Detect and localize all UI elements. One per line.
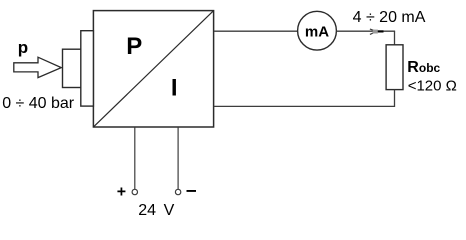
wire: ammeter to top-right corner [336,30,395,32]
pressure port inner flange [63,49,81,87]
svg-text:4 ÷ 20 mA: 4 ÷ 20 mA [353,9,426,26]
wire: - supply lead [177,127,179,189]
svg-text:24V: 24V [138,202,174,219]
resistor Robc [386,45,403,90]
svg-text:0 ÷ 40 bar: 0 ÷ 40 bar [2,95,75,112]
pressure input block arrow [14,57,62,77]
svg-text:P: P [126,33,142,60]
wire: corner down to resistor top [394,31,396,45]
current direction arrow [370,29,384,34]
terminal + [132,189,137,194]
ammeter M1 [298,11,337,50]
P/I converter box U1 [93,11,213,127]
svg-text:p: p [18,38,28,57]
wire: + supply lead [134,127,136,189]
diagonal divider of converter box [94,11,214,127]
pressure port outer flange [81,31,94,106]
svg-text:mA: mA [305,23,329,40]
wire: resistor bottom return to box [214,90,395,107]
wire: box output to ammeter [214,30,298,32]
svg-text:I: I [171,75,178,102]
svg-text:Robc: Robc [407,59,440,76]
svg-text:<120 Ω: <120 Ω [408,78,457,95]
label - [187,190,197,192]
terminal - [175,189,180,194]
svg-text:+: + [117,183,126,200]
